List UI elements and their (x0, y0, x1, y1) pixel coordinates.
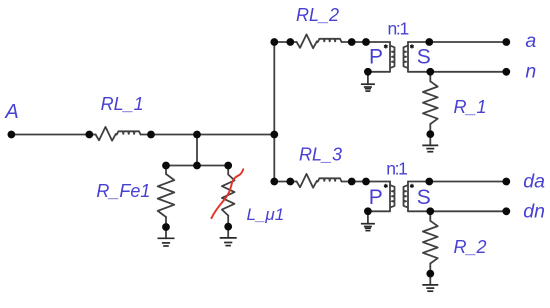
svg-text:a: a (525, 30, 536, 52)
svg-text:RL_1: RL_1 (101, 94, 144, 114)
svg-text:n:1: n:1 (388, 19, 409, 39)
svg-text:RL_3: RL_3 (299, 144, 342, 164)
svg-text:A: A (4, 101, 18, 123)
svg-text:n:1: n:1 (386, 159, 407, 179)
svg-text:R_2: R_2 (454, 237, 487, 257)
svg-text:n: n (525, 61, 536, 83)
svg-text:L_μ1: L_μ1 (247, 205, 285, 224)
svg-text:R_1: R_1 (454, 97, 487, 117)
svg-text:S: S (417, 186, 431, 209)
svg-text:S: S (417, 46, 431, 69)
svg-text:dn: dn (523, 200, 545, 222)
svg-text:RL_2: RL_2 (296, 5, 339, 25)
svg-text:P: P (369, 46, 383, 69)
svg-text:da: da (523, 170, 545, 192)
svg-text:R_Fe1: R_Fe1 (96, 181, 150, 201)
svg-text:P: P (369, 186, 383, 209)
